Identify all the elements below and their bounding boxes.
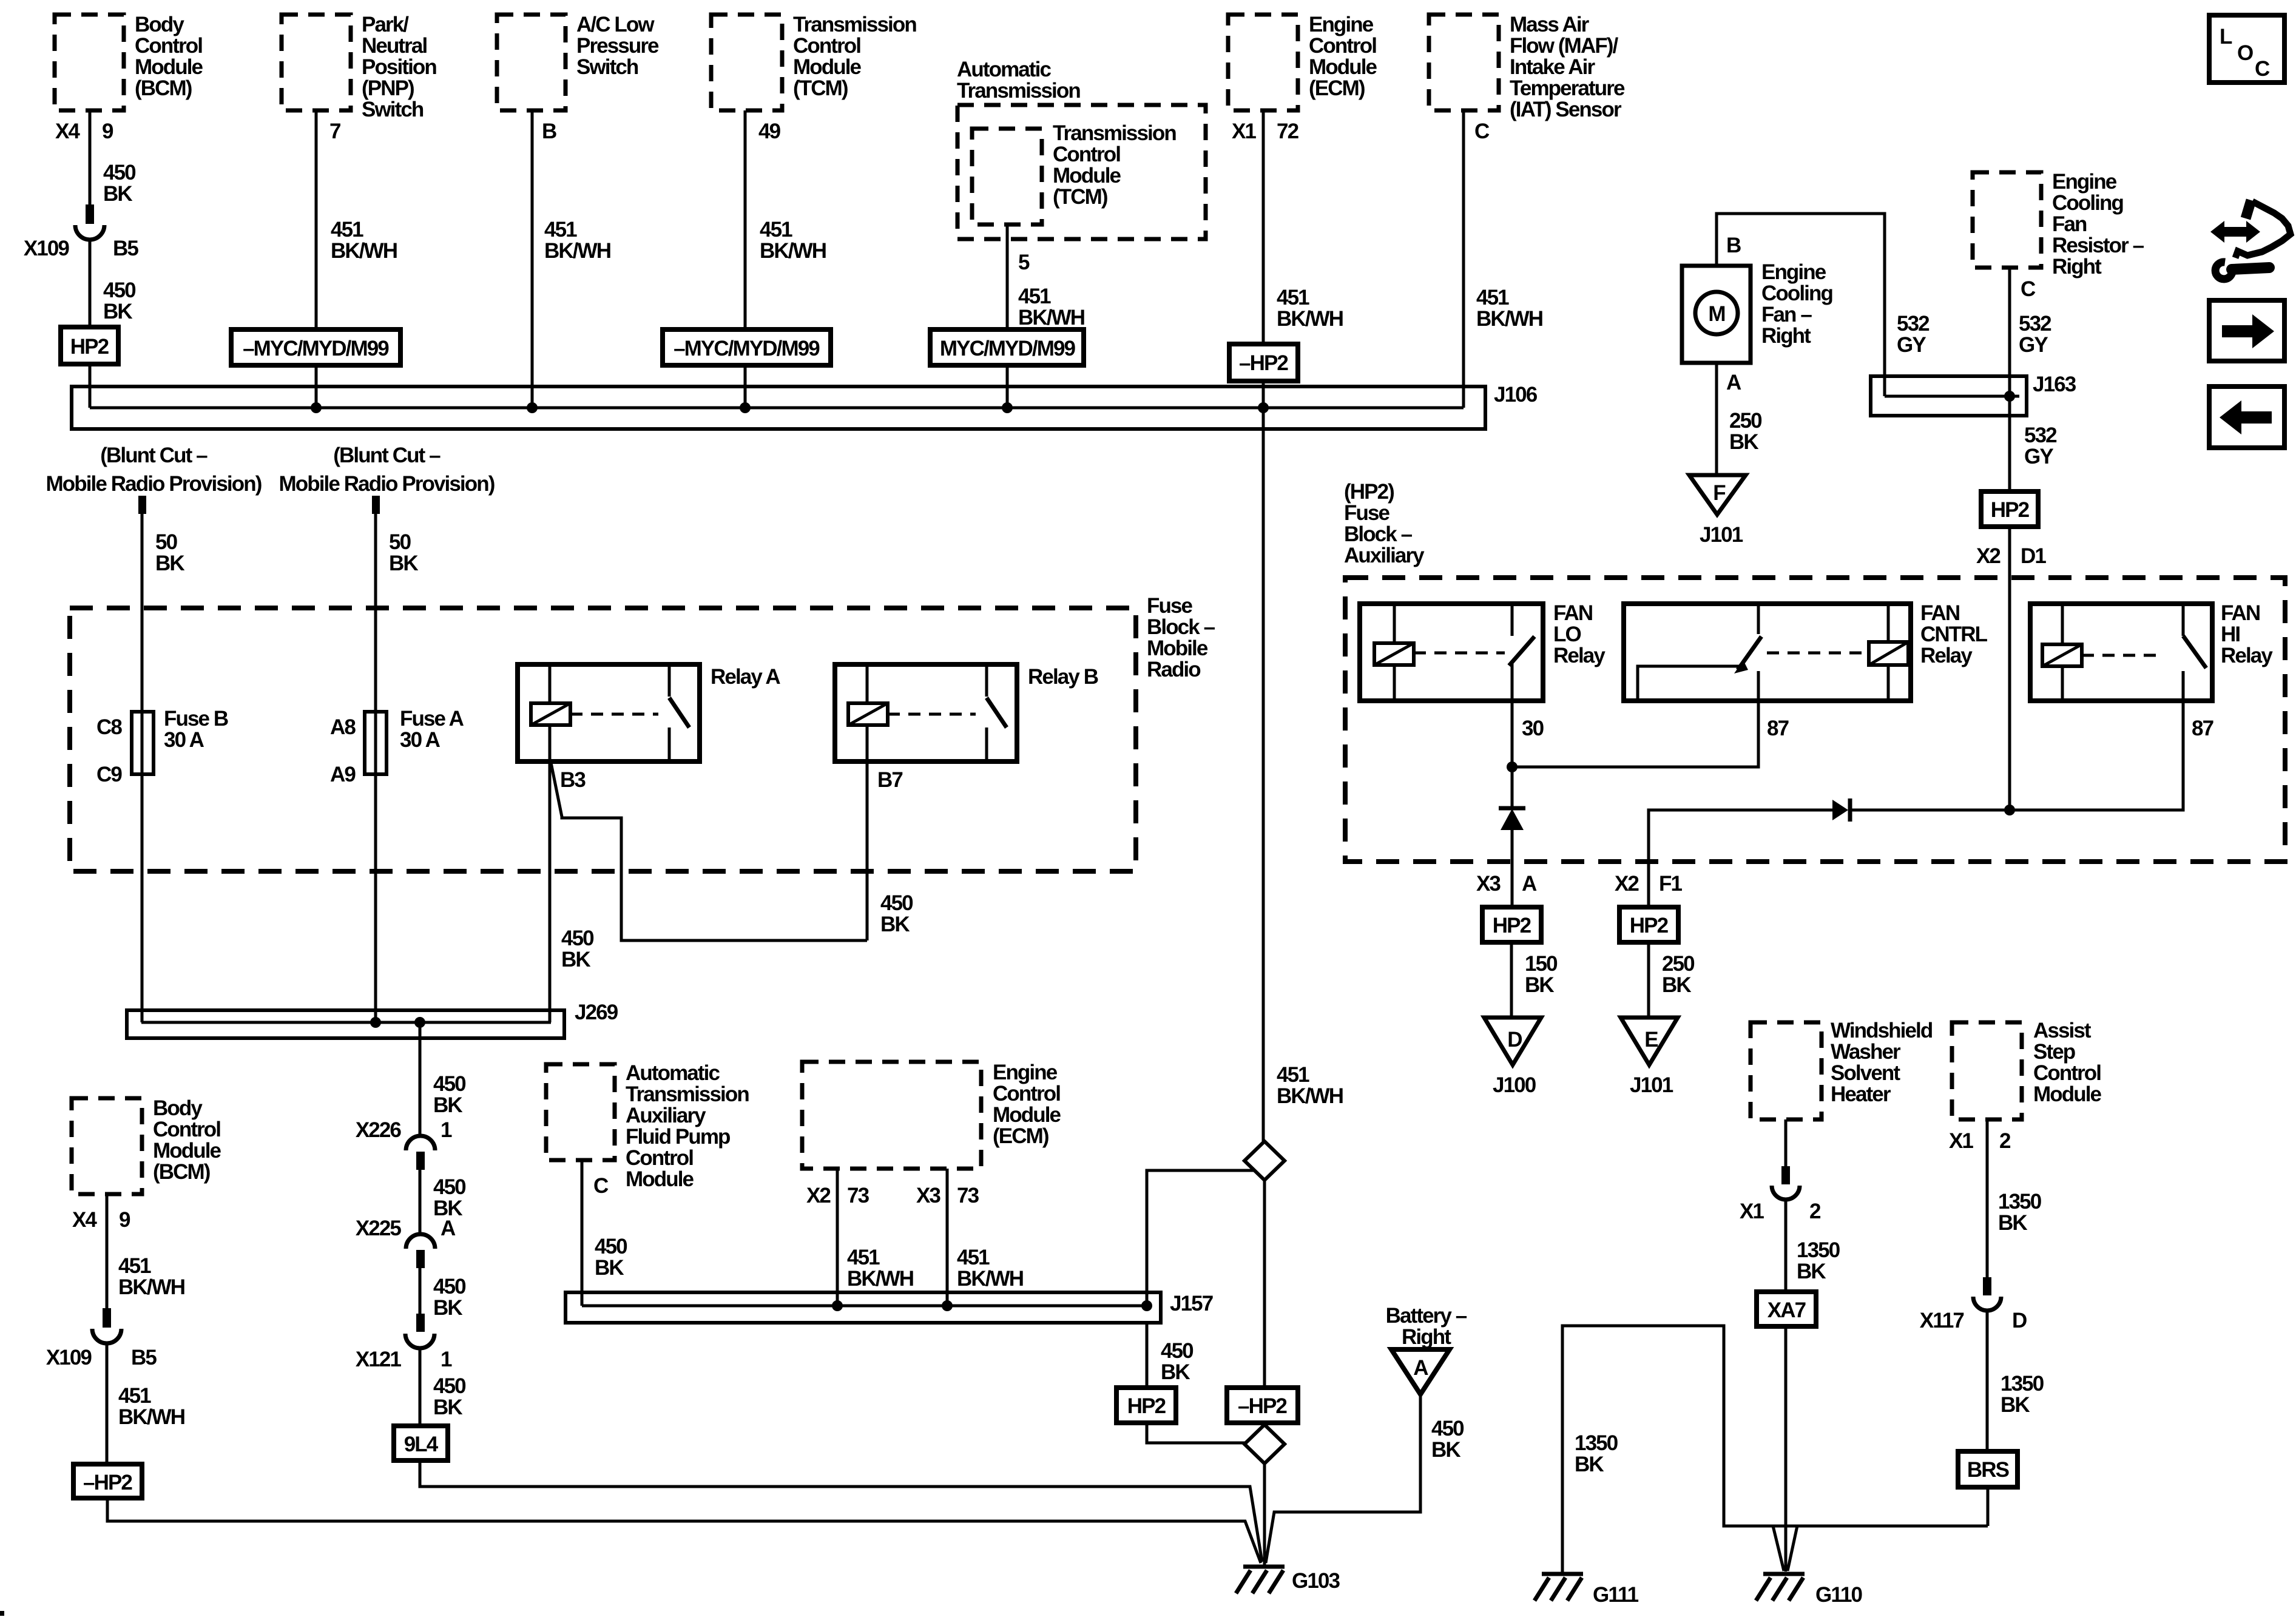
tag -MYC/MYD/M99 <box>231 329 400 365</box>
svg-text:B7: B7 <box>877 768 902 792</box>
node junction dot J163 <box>2004 391 2015 402</box>
svg-text:1: 1 <box>441 1118 452 1142</box>
svg-text:BK/WH: BK/WH <box>118 1275 184 1299</box>
tag -HP2 mid <box>1227 1388 1298 1423</box>
connector X109 inline (blade and socket) <box>86 204 94 224</box>
svg-text:X1: X1 <box>1949 1129 1973 1153</box>
svg-text:Temperature: Temperature <box>1510 76 1625 100</box>
svg-text:30 A: 30 A <box>164 728 204 752</box>
svg-text:A8: A8 <box>330 715 356 739</box>
svg-text:Relay A: Relay A <box>711 665 780 689</box>
svg-text:9L4: 9L4 <box>404 1433 439 1456</box>
svg-text:Auxiliary: Auxiliary <box>626 1104 706 1127</box>
svg-text:450: 450 <box>595 1235 627 1258</box>
svg-text:BK: BK <box>103 182 132 206</box>
svg-text:Control: Control <box>2033 1061 2101 1085</box>
svg-text:1: 1 <box>441 1348 452 1371</box>
svg-text:Cooling: Cooling <box>1761 282 1832 305</box>
svg-text:G111: G111 <box>1593 1583 1639 1607</box>
svg-text:Transmission: Transmission <box>1053 121 1176 145</box>
wire diamond to ground G103 <box>1263 1463 1266 1565</box>
assembly Automatic Transmission outer dashed box <box>957 105 1206 239</box>
wire X225 to X121 <box>419 1268 422 1314</box>
svg-text:F: F <box>1713 481 1726 505</box>
wire ECM pin 72 to -HP2 tag <box>1262 110 1265 344</box>
svg-text:B5: B5 <box>131 1346 157 1369</box>
wire J163 internal conductor <box>1885 395 2019 398</box>
wire TCM pin 49 to MYC tag <box>744 110 747 329</box>
svg-text:L: L <box>2220 25 2232 49</box>
bus J157 splice pack <box>566 1292 1161 1323</box>
wire ECM X2-73 to bus J157 <box>836 1169 839 1306</box>
svg-text:Module: Module <box>1309 55 1377 79</box>
svg-text:BK: BK <box>1575 1453 1604 1476</box>
node E ground triangle J101 <box>1621 1018 1678 1065</box>
svg-text:Flow (MAF)/: Flow (MAF)/ <box>1510 34 1619 58</box>
svg-text:J101: J101 <box>1630 1073 1673 1097</box>
svg-text:87: 87 <box>1767 717 1789 740</box>
wire G110 funnel right <box>1788 1526 1797 1571</box>
svg-text:9: 9 <box>119 1208 130 1232</box>
svg-text:Fan –: Fan – <box>1761 303 1812 326</box>
svg-text:CNTRL: CNTRL <box>1920 623 1988 646</box>
svg-text:Automatic: Automatic <box>626 1061 720 1085</box>
svg-text:BK/WH: BK/WH <box>760 239 826 263</box>
svg-text:Module: Module <box>993 1103 1061 1127</box>
svg-text:D1: D1 <box>2021 544 2046 568</box>
node F ground triangle J101 <box>1689 475 1746 515</box>
svg-text:BK/WH: BK/WH <box>118 1405 184 1429</box>
connector X109 inline lower <box>103 1308 111 1328</box>
wire X1 to XA7 tag <box>1784 1200 1788 1292</box>
svg-text:X4: X4 <box>72 1208 97 1232</box>
svg-text:(TCM): (TCM) <box>793 76 848 100</box>
svg-text:7: 7 <box>329 120 340 143</box>
svg-text:Engine: Engine <box>993 1061 1058 1084</box>
svg-text:D: D <box>2012 1309 2027 1332</box>
svg-text:Body: Body <box>153 1096 203 1120</box>
svg-text:B: B <box>542 120 556 143</box>
wire BRS to ground G110 <box>1987 1487 1990 1526</box>
relay K FAN LO <box>1360 604 1543 701</box>
svg-text:C8: C8 <box>96 715 122 739</box>
wire HP2 tag to fuse block pin D1 <box>2008 527 2011 810</box>
svg-text:B5: B5 <box>113 237 138 260</box>
svg-text:A: A <box>1413 1356 1428 1380</box>
wire relay B B7 down <box>866 761 869 940</box>
svg-text:–HP2: –HP2 <box>83 1471 132 1494</box>
tag 9L4 <box>394 1426 448 1460</box>
wire battery to ground G103 <box>1266 1394 1420 1563</box>
svg-text:Block –: Block – <box>1147 615 1215 639</box>
svg-text:BK/WH: BK/WH <box>331 239 397 263</box>
svg-text:450: 450 <box>1161 1339 1194 1363</box>
svg-text:Block –: Block – <box>1344 522 1413 546</box>
svg-text:Cooling: Cooling <box>2052 191 2123 215</box>
svg-text:HP2: HP2 <box>1493 914 1531 937</box>
svg-text:HP2: HP2 <box>70 335 109 359</box>
svg-text:Engine: Engine <box>1761 260 1826 284</box>
svg-text:Module: Module <box>153 1139 221 1163</box>
svg-text:450: 450 <box>433 1175 466 1199</box>
switch PNP (Park/Neutral Position) dashed box <box>282 15 351 110</box>
svg-text:X2: X2 <box>806 1184 831 1207</box>
svg-text:250: 250 <box>1662 952 1695 976</box>
node junction dot D1 wire on F1 leg <box>2004 805 2015 815</box>
wire PNP pin 7 to MYC tag <box>315 110 318 329</box>
icon LOC box <box>2209 15 2284 83</box>
svg-text:250: 250 <box>1729 409 1762 433</box>
module ECM lower dashed box <box>802 1062 981 1169</box>
svg-text:HP2: HP2 <box>1991 498 2030 522</box>
svg-text:Module: Module <box>1053 164 1121 187</box>
svg-text:450: 450 <box>433 1072 466 1096</box>
svg-text:BK/WH: BK/WH <box>847 1267 913 1291</box>
wire X109 to -HP2 tag <box>106 1343 109 1464</box>
svg-text:X1: X1 <box>1232 120 1256 143</box>
svg-text:BK: BK <box>595 1256 624 1280</box>
wire A/C pin B to bus J106 <box>531 110 534 408</box>
svg-text:Relay B: Relay B <box>1028 665 1098 689</box>
wire diode to fuse block edge X3-A <box>1511 830 1514 907</box>
node junction dot pin30/pin87 <box>1507 761 1518 772</box>
node junction dots J269 <box>370 1017 381 1028</box>
svg-text:X121: X121 <box>356 1348 402 1371</box>
svg-text:XA7: XA7 <box>1768 1298 1806 1322</box>
wire G110 funnel left <box>1773 1526 1784 1571</box>
svg-text:Radio: Radio <box>1147 658 1201 681</box>
svg-text:Body: Body <box>135 13 184 36</box>
svg-text:X109: X109 <box>46 1346 92 1369</box>
svg-text:Relay: Relay <box>2221 644 2273 667</box>
svg-text:Position: Position <box>362 55 436 79</box>
wire J106 internal conductor <box>90 407 1464 410</box>
svg-text:Intake Air: Intake Air <box>1510 55 1595 79</box>
svg-text:532: 532 <box>1897 312 1930 336</box>
svg-text:532: 532 <box>2019 312 2051 336</box>
relay K FAN HI <box>2030 604 2212 701</box>
svg-text:BK: BK <box>1431 1438 1460 1462</box>
resistor Engine Cooling Fan Resistor Right dashed box <box>1973 172 2041 268</box>
svg-text:FAN: FAN <box>1553 601 1592 625</box>
terminal blunt cut stub 1 <box>138 496 146 514</box>
svg-text:9: 9 <box>102 120 113 143</box>
svg-text:Module: Module <box>135 55 203 79</box>
svg-text:LO: LO <box>1553 623 1581 646</box>
svg-text:49: 49 <box>758 120 781 143</box>
node D ground triangle J100 <box>1484 1018 1541 1065</box>
svg-text:(BCM): (BCM) <box>135 76 192 100</box>
tag HP2 mid <box>1116 1388 1176 1423</box>
svg-text:Module: Module <box>626 1167 694 1191</box>
wire J157 riser to splice diamond <box>1147 1170 1254 1306</box>
ground G103 symbol <box>1243 1565 1285 1569</box>
svg-text:1350: 1350 <box>1797 1238 1840 1262</box>
svg-text:30 A: 30 A <box>400 728 441 752</box>
tag XA7 <box>1757 1292 1816 1326</box>
node junction dots J157 <box>832 1300 843 1311</box>
bus J106 ground distribution <box>72 387 1485 429</box>
svg-text:Module: Module <box>793 55 862 79</box>
svg-text:Fuse: Fuse <box>1344 501 1390 525</box>
module BCM (Body Control Module) top-left dashed box <box>55 15 124 110</box>
svg-text:Control: Control <box>1053 143 1120 166</box>
wire assist module to X117 <box>1986 1119 1989 1277</box>
svg-text:O: O <box>2237 41 2253 65</box>
module ECM (Engine Control Module) dashed box <box>1228 15 1298 110</box>
svg-text:BK/WH: BK/WH <box>1277 1084 1343 1108</box>
svg-text:451: 451 <box>957 1246 990 1269</box>
svg-text:C: C <box>593 1174 609 1198</box>
wire X121 to 9L4 tag <box>419 1348 422 1426</box>
terminal blunt cut stub 2 <box>372 496 380 514</box>
svg-text:M: M <box>1708 302 1724 326</box>
svg-text:Solvent: Solvent <box>1831 1061 1900 1085</box>
tag -HP2 lower left <box>73 1464 142 1498</box>
svg-text:(Blunt Cut –: (Blunt Cut – <box>333 444 441 467</box>
svg-text:(IAT) Sensor: (IAT) Sensor <box>1510 98 1622 121</box>
svg-text:C: C <box>1474 120 1490 143</box>
svg-text:BK: BK <box>103 300 132 323</box>
svg-text:(Blunt Cut –: (Blunt Cut – <box>100 444 208 467</box>
wire pin 30 to FAN CNTRL pin 87 <box>1512 701 1758 767</box>
svg-text:BK: BK <box>2001 1393 2030 1417</box>
connector X225 inline <box>406 1234 435 1249</box>
wire jog B3 to relay B B7 <box>551 763 867 940</box>
svg-text:BK: BK <box>1797 1260 1826 1283</box>
fuse B 30A <box>132 712 154 774</box>
wire HP2 to splice diamond lower <box>1147 1423 1247 1443</box>
svg-text:J163: J163 <box>2033 373 2076 396</box>
diode D1 pointing up on X3-A leg <box>1499 806 1525 811</box>
svg-text:451: 451 <box>118 1384 151 1408</box>
svg-text:Pressure: Pressure <box>576 34 659 58</box>
svg-text:451: 451 <box>847 1246 880 1269</box>
svg-text:(PNP): (PNP) <box>362 76 414 100</box>
svg-text:450: 450 <box>433 1374 466 1398</box>
svg-text:F1: F1 <box>1659 872 1682 896</box>
bus J269 splice pack <box>127 1010 564 1038</box>
svg-text:GY: GY <box>2024 445 2053 468</box>
wire ATAFP pin C to bus J157 <box>581 1160 584 1306</box>
wire MYC tag to bus J106 <box>744 365 747 408</box>
svg-text:Control: Control <box>993 1082 1060 1106</box>
icon arrow previous box <box>2209 387 2284 448</box>
svg-text:BK/WH: BK/WH <box>1018 306 1084 329</box>
svg-text:Fuse: Fuse <box>1147 594 1193 618</box>
svg-text:(ECM): (ECM) <box>1309 76 1365 100</box>
svg-text:Relay: Relay <box>1920 644 1973 667</box>
svg-text:X3: X3 <box>1476 872 1501 896</box>
svg-text:J157: J157 <box>1170 1292 1213 1315</box>
wire XA7 to ground G110 <box>1784 1326 1788 1571</box>
svg-text:(HP2): (HP2) <box>1344 480 1394 504</box>
svg-text:A/C Low: A/C Low <box>576 13 655 36</box>
svg-text:C: C <box>2021 277 2036 301</box>
svg-text:J100: J100 <box>1493 1073 1536 1097</box>
svg-text:50: 50 <box>389 530 411 554</box>
svg-text:Right: Right <box>1761 324 1811 348</box>
svg-text:HP2: HP2 <box>1630 914 1669 937</box>
tag HP2 (harness code) <box>61 327 118 364</box>
wire J157 to HP2 tag <box>1146 1323 1149 1388</box>
node junction dots on J106 <box>311 402 322 413</box>
svg-text:450: 450 <box>103 279 136 302</box>
wire HP2 tag to bus J106 <box>89 364 92 408</box>
svg-text:Relay: Relay <box>1553 644 1606 667</box>
svg-text:Transmission: Transmission <box>793 13 916 36</box>
svg-text:C9: C9 <box>96 763 122 786</box>
svg-text:Switch: Switch <box>576 55 638 79</box>
wire washer heater to X1 connector <box>1784 1119 1788 1166</box>
wire X109 to HP2 tag <box>89 239 92 327</box>
wire G111 loop to G110 node <box>1562 1326 1988 1573</box>
svg-text:Mass Air: Mass Air <box>1510 13 1590 36</box>
wire 50 BK fuse A feed <box>374 514 377 1022</box>
svg-text:Mobile: Mobile <box>1147 636 1208 660</box>
svg-text:Transmission: Transmission <box>626 1082 749 1106</box>
wire J157 internal conductor <box>582 1305 1152 1308</box>
fuse A 30A <box>365 712 387 774</box>
svg-text:BK: BK <box>389 552 418 575</box>
ground G110 symbol <box>1763 1572 1805 1576</box>
sensor MAF/IAT dashed box <box>1429 15 1499 110</box>
svg-text:A: A <box>441 1217 456 1240</box>
wire MAF pin C to bus J106 <box>1462 110 1465 408</box>
module TCM (Transmission Control Module) dashed box <box>711 15 782 110</box>
tag -HP2 <box>1229 344 1298 381</box>
svg-text:Assist: Assist <box>2033 1019 2092 1042</box>
wire resistor pin C through J163 to HP2 tag <box>2008 268 2011 491</box>
svg-text:X2: X2 <box>1976 544 2001 568</box>
svg-text:BK: BK <box>1729 430 1758 454</box>
svg-text:Fuse A: Fuse A <box>400 707 464 731</box>
diode D2 pointing right <box>1832 800 1848 820</box>
svg-text:G103: G103 <box>1292 1569 1340 1593</box>
connector X1 inline <box>1781 1166 1790 1184</box>
module Automatic Transmission Auxiliary Fluid Pump dashed box <box>546 1064 615 1160</box>
svg-text:E: E <box>1644 1028 1658 1052</box>
svg-text:1350: 1350 <box>2001 1372 2044 1396</box>
svg-text:J101: J101 <box>1700 523 1743 547</box>
wire HP2 to ground triangle E <box>1647 942 1650 1018</box>
svg-text:C: C <box>2255 57 2270 81</box>
svg-text:450: 450 <box>561 927 594 950</box>
svg-text:X3: X3 <box>916 1184 940 1207</box>
icon arrow next box <box>2209 300 2284 361</box>
svg-text:BK/WH: BK/WH <box>1476 307 1542 331</box>
svg-text:–HP2: –HP2 <box>1239 351 1288 375</box>
wire -HP2 to ground G103 <box>107 1498 1261 1563</box>
relay K FAN CNTRL <box>1624 604 1911 701</box>
svg-text:BK: BK <box>1525 973 1554 997</box>
wire MYC tag to bus J106 <box>315 365 318 408</box>
svg-text:Module: Module <box>2033 1082 2102 1106</box>
svg-text:Transmission: Transmission <box>957 79 1080 103</box>
svg-text:Park/: Park/ <box>362 13 409 36</box>
tag HP2 on 532 GY wire <box>1981 491 2038 527</box>
assembly Fuse Block Mobile Radio dashed box <box>70 608 1136 871</box>
module TCM inner dashed box <box>972 129 1042 224</box>
wire MYC tag to bus J106 <box>1006 365 1009 408</box>
connector X121 inline <box>416 1314 425 1332</box>
svg-text:X109: X109 <box>24 237 70 260</box>
svg-text:Mobile Radio Provision): Mobile Radio Provision) <box>279 472 495 496</box>
svg-text:Control: Control <box>793 34 860 58</box>
tag MYC/MYD/M99 <box>930 329 1084 365</box>
svg-text:Battery –: Battery – <box>1386 1304 1467 1328</box>
svg-text:J106: J106 <box>1494 383 1538 407</box>
svg-text:(ECM): (ECM) <box>993 1124 1048 1148</box>
svg-text:Right: Right <box>2052 255 2102 279</box>
relay A <box>518 664 700 761</box>
wire ECM X3-73 to bus J157 <box>946 1169 949 1306</box>
splice diamond upper <box>1244 1141 1285 1180</box>
svg-text:451: 451 <box>1277 286 1309 309</box>
svg-text:B3: B3 <box>560 768 586 792</box>
svg-text:Control: Control <box>1309 34 1376 58</box>
switch A/C Low Pressure dashed box <box>497 15 566 110</box>
ground G111 symbol <box>1542 1572 1583 1576</box>
svg-text:Automatic: Automatic <box>957 58 1051 81</box>
wire diamond to -HP2 tag <box>1263 1180 1266 1388</box>
wire engine cooling fan B circuit <box>1717 214 1885 396</box>
splice diamond lower <box>1244 1425 1285 1463</box>
svg-text:2: 2 <box>1999 1129 2011 1153</box>
relay B <box>835 664 1017 761</box>
mark page corner artifact <box>0 1611 4 1616</box>
svg-text:BK: BK <box>433 1093 462 1117</box>
svg-text:50: 50 <box>155 530 178 554</box>
svg-text:X1: X1 <box>1740 1200 1764 1223</box>
svg-text:Control: Control <box>153 1118 220 1141</box>
svg-text:X226: X226 <box>356 1118 402 1142</box>
svg-text:2: 2 <box>1809 1200 1821 1223</box>
connector X226 inline <box>406 1136 435 1150</box>
svg-text:X2: X2 <box>1615 872 1639 896</box>
wire 451 BK/WH main vertical from ECM <box>1262 381 1265 1141</box>
svg-text:BK: BK <box>880 913 910 936</box>
svg-text:A: A <box>1522 872 1537 896</box>
svg-text:Fluid Pump: Fluid Pump <box>626 1125 730 1149</box>
svg-text:D: D <box>1507 1028 1522 1052</box>
svg-text:Right: Right <box>1402 1325 1451 1349</box>
svg-text:X225: X225 <box>356 1217 402 1240</box>
svg-text:Control: Control <box>135 34 202 58</box>
tag BRS <box>1958 1451 2017 1487</box>
svg-text:BK: BK <box>433 1396 462 1419</box>
tag HP2 on 150 BK <box>1482 907 1541 942</box>
svg-text:Neutral: Neutral <box>362 34 427 58</box>
svg-text:BK: BK <box>155 552 184 575</box>
wire F1 leg horizontal with diode to FAN HI 87 <box>1649 810 1832 907</box>
svg-text:Engine: Engine <box>1309 13 1374 36</box>
wire relay A B3 to bus J269 <box>549 761 552 1022</box>
svg-text:Engine: Engine <box>2052 170 2117 194</box>
bus J163 splice pack <box>1871 376 2027 416</box>
svg-text:GY: GY <box>2019 333 2048 357</box>
svg-text:B: B <box>1726 234 1741 257</box>
svg-text:73: 73 <box>847 1184 869 1207</box>
svg-text:30: 30 <box>1522 717 1544 740</box>
svg-text:450: 450 <box>1431 1417 1464 1440</box>
svg-text:BK/WH: BK/WH <box>1277 307 1343 331</box>
svg-text:Fuse B: Fuse B <box>164 707 228 731</box>
svg-text:GY: GY <box>1897 333 1926 357</box>
wire -HP2 to splice diamond lower <box>1262 1423 1265 1426</box>
svg-text:72: 72 <box>1277 120 1299 143</box>
svg-text:451: 451 <box>331 218 363 241</box>
